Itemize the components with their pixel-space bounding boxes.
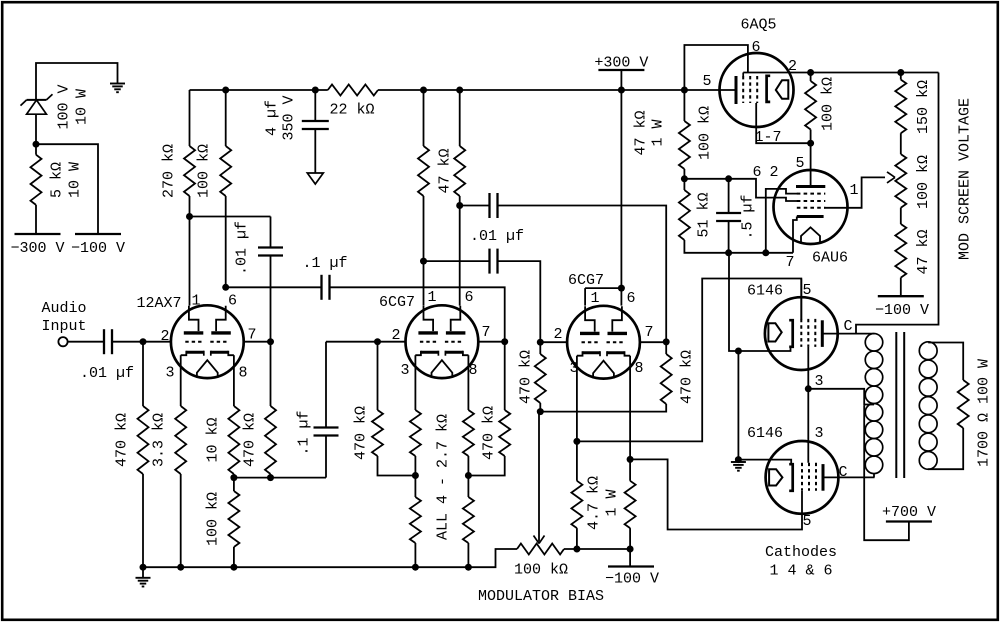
resistor 10k — [204, 355, 239, 477]
wire cathode lower 6146 — [738, 460, 791, 465]
svg-text:2: 2 — [769, 164, 778, 181]
svg-text:1: 1 — [427, 289, 436, 306]
wire drive lower 6146 — [630, 459, 802, 529]
svg-text:6146: 6146 — [747, 425, 783, 442]
svg-text:MOD SCREEN VOLTAGE: MOD SCREEN VOLTAGE — [956, 98, 973, 260]
wire grid7 6CG7b — [640, 341, 666, 343]
terminal -100V bias — [605, 549, 659, 588]
wire plate jumper 6CG7b — [585, 287, 621, 289]
tube 6146 lower — [747, 425, 848, 530]
svg-text:7: 7 — [785, 254, 794, 271]
svg-text:7: 7 — [644, 324, 653, 341]
wire node to -100V — [36, 144, 98, 234]
wire cath3 6CG7b — [576, 356, 578, 442]
node drive upper — [573, 438, 580, 445]
svg-text:7: 7 — [247, 327, 256, 344]
wire cathode upper 6146 — [729, 253, 791, 351]
ground G1 — [110, 84, 125, 93]
tube 6AU6 — [752, 143, 858, 271]
resistor 5k 10W — [31, 155, 84, 234]
capacitor .5uf — [716, 179, 756, 253]
resistor 2.7k cath A lower — [410, 414, 451, 567]
resistor 47k pair A — [418, 90, 429, 261]
node rail 4uf — [312, 87, 319, 94]
node rail 47kB — [456, 87, 463, 94]
wire cathode lead 6AU6 — [793, 217, 797, 253]
tube 6AQ5 — [702, 17, 797, 147]
wire pin3 to tap — [808, 389, 864, 406]
svg-text:5 kΩ: 5 kΩ — [48, 162, 65, 198]
svg-text:2: 2 — [160, 328, 169, 345]
node gnd3 — [230, 564, 237, 571]
node plateA 6CG7a — [420, 258, 427, 265]
node gnd2 — [177, 564, 184, 571]
node pin3 junction — [805, 385, 812, 392]
svg-text:1: 1 — [191, 293, 200, 310]
node grid2 12AX7 — [267, 338, 274, 345]
capacitor .01uf A — [233, 217, 283, 342]
resistor 470k gridA 6CG7a — [352, 342, 415, 476]
terminal -300V — [10, 234, 64, 257]
wire screen return — [856, 73, 939, 334]
wire plateA coupling — [424, 260, 490, 262]
svg-text:12AX7: 12AX7 — [136, 295, 181, 312]
wire pin1 6CG7a — [423, 261, 425, 306]
svg-text:47 kΩ: 47 kΩ — [632, 110, 649, 155]
svg-text:1: 1 — [849, 182, 858, 199]
wire pin1 12AX7 — [189, 217, 191, 306]
node zener-resistor — [33, 141, 40, 148]
wire coil bottom tick — [873, 474, 875, 478]
resistor 1700 ohm — [958, 359, 993, 467]
node cath3 6CG7b — [573, 546, 580, 553]
svg-text:8: 8 — [634, 360, 643, 377]
wire pin7 12AX7 — [244, 341, 271, 343]
resistor 3.3k — [150, 355, 186, 567]
svg-text:6: 6 — [464, 289, 473, 306]
resistor 100k cathode — [204, 478, 239, 568]
arrow bias wiper — [534, 536, 545, 544]
terminal +700V — [882, 504, 936, 522]
wire plateB coupling — [460, 205, 490, 207]
svg-text:470 kΩ: 470 kΩ — [113, 413, 130, 467]
wire capC to grid2 6CG7b — [498, 261, 541, 342]
svg-text:470 kΩ: 470 kΩ — [480, 406, 497, 460]
node screen 6AQ5 — [807, 69, 814, 76]
resistor 470k grid2 — [241, 342, 276, 478]
pot 100k bias — [514, 544, 568, 579]
svg-text:1: 1 — [590, 290, 599, 307]
svg-text:6AU6: 6AU6 — [812, 250, 848, 267]
node grid2r 6CG7b — [537, 339, 544, 346]
node input grid — [140, 338, 147, 345]
resistor 47k 1W — [632, 90, 713, 179]
svg-text:Audio: Audio — [41, 300, 86, 317]
transformer core — [896, 332, 904, 478]
svg-text:5: 5 — [802, 282, 811, 299]
node screen node — [681, 175, 688, 182]
svg-text:1 W: 1 W — [649, 119, 666, 146]
svg-text:4.7 kΩ: 4.7 kΩ — [585, 476, 602, 530]
svg-text:2: 2 — [553, 326, 562, 343]
ground G3 — [731, 462, 746, 471]
resistor 47k pair B — [436, 90, 465, 206]
svg-text:470 kΩ: 470 kΩ — [352, 406, 369, 460]
resistor 470k gridB 6CG7a — [468, 342, 510, 476]
svg-text:+300 V: +300 V — [594, 55, 648, 72]
svg-text:3: 3 — [814, 425, 823, 442]
wire grid2 stub 6AU6 — [766, 189, 798, 253]
capacitor .01uf B — [470, 193, 524, 245]
svg-text:6AQ5: 6AQ5 — [740, 17, 776, 34]
audio input label — [41, 300, 86, 335]
tube 12AX7 — [136, 293, 256, 382]
ground chassis 4uf — [307, 173, 323, 184]
node rail +300 — [618, 87, 625, 94]
svg-text:6: 6 — [228, 293, 237, 310]
resistor 4.7k 1W B — [625, 459, 636, 549]
wire pin3 6146 — [807, 347, 809, 463]
svg-text:2: 2 — [391, 327, 400, 344]
svg-text:8: 8 — [238, 365, 247, 382]
svg-text:470 kΩ: 470 kΩ — [241, 413, 258, 467]
capacitor .1uf coupling — [302, 255, 347, 300]
svg-text:5: 5 — [702, 73, 711, 90]
wire plate upper 6146 — [822, 333, 874, 335]
svg-text:470 kΩ: 470 kΩ — [678, 350, 695, 404]
wire cathode ground — [737, 351, 739, 462]
svg-text:3.3 kΩ: 3.3 kΩ — [150, 413, 167, 467]
svg-text:10 W: 10 W — [66, 162, 83, 198]
node plates 6CG7b — [618, 285, 625, 292]
arrow screen wiper — [887, 172, 895, 183]
svg-text:Input: Input — [41, 318, 86, 335]
svg-text:10 W: 10 W — [73, 89, 90, 125]
wire cath8 6CG7b — [629, 356, 631, 460]
svg-text:5: 5 — [802, 513, 811, 530]
node grid7 6CG7a — [501, 338, 508, 345]
wire screen to grid stub — [684, 179, 797, 201]
tube 6CG7 second — [553, 272, 653, 379]
svg-text:6: 6 — [752, 164, 761, 181]
node gnd4 — [412, 564, 419, 571]
node k2 — [267, 474, 274, 481]
wire bias rail — [564, 548, 630, 550]
resistor 2.7k cath B lower — [463, 406, 497, 567]
wire +300 feed 6CG7b — [620, 90, 622, 288]
transformer primary — [865, 334, 883, 474]
wire secondary bottom — [928, 428, 963, 469]
svg-text:47 kΩ: 47 kΩ — [436, 148, 453, 193]
wire input to cap — [68, 341, 104, 343]
svg-text:4 µf: 4 µf — [263, 100, 280, 136]
resistor 22k — [328, 85, 378, 119]
svg-text:.01 µf: .01 µf — [233, 221, 250, 275]
resistor 150k — [895, 73, 932, 155]
svg-text:.01 µf: .01 µf — [80, 365, 134, 382]
svg-text:Cathodes: Cathodes — [765, 544, 837, 561]
svg-text:.1 µf: .1 µf — [302, 255, 347, 272]
tube 6CG7 first — [379, 289, 491, 379]
svg-text:6: 6 — [626, 290, 635, 307]
svg-text:47 kΩ: 47 kΩ — [915, 229, 932, 274]
svg-text:8: 8 — [468, 362, 477, 379]
wire pin7 6CG7a — [478, 341, 505, 343]
node cap5 top — [725, 175, 732, 182]
node drive lower — [627, 456, 634, 463]
node plate 6AU6 — [807, 140, 814, 147]
svg-text:350 V: 350 V — [280, 95, 297, 140]
node grid7r 6CG7b — [663, 338, 670, 345]
wire zener top to ground — [36, 63, 118, 100]
resistor 470k input — [113, 342, 148, 568]
svg-text:6146: 6146 — [747, 283, 783, 300]
node rail 100k — [222, 87, 229, 94]
node k1 — [230, 474, 237, 481]
svg-text:−100 V: −100 V — [605, 571, 659, 588]
svg-text:1 W: 1 W — [603, 489, 620, 516]
wire pin5 upper 6146 — [800, 279, 802, 319]
svg-text:10 kΩ: 10 kΩ — [204, 417, 221, 462]
label modulator bias — [478, 588, 604, 605]
svg-text:100 kΩ: 100 kΩ — [696, 106, 713, 160]
resistor 2.7k cath A upper — [410, 355, 421, 475]
capacitor 4uf 350V — [263, 90, 329, 173]
wire capB to grid 6CG7 — [326, 341, 406, 343]
svg-text:3: 3 — [400, 362, 409, 379]
svg-text:100 kΩ: 100 kΩ — [819, 77, 836, 131]
ground bus — [143, 549, 517, 567]
wire bias arm — [538, 412, 540, 542]
wire tap to +700 — [864, 405, 909, 540]
terminal -100V chain — [875, 296, 929, 319]
svg-text:150 kΩ: 150 kΩ — [915, 80, 932, 134]
svg-text:−100 V: −100 V — [71, 240, 125, 257]
svg-text:+700 V: +700 V — [882, 504, 936, 521]
node cathB 6CG7a — [465, 472, 472, 479]
resistor 2.7k cath B upper — [463, 355, 474, 475]
capacitor .01uf C — [490, 249, 498, 274]
input terminal — [58, 337, 67, 346]
node gnd5 — [465, 564, 472, 571]
rail +300 segment A — [190, 89, 328, 91]
capacitor .01uf input — [80, 329, 134, 382]
wire plate lower 6146 — [823, 476, 875, 478]
resistor 270k — [160, 90, 195, 217]
svg-text:7: 7 — [481, 324, 490, 341]
capacitor .1uf B — [295, 342, 338, 478]
resistor 4.7k 1W A — [571, 441, 620, 549]
resistor 47k chain — [895, 224, 932, 296]
node plate2 — [222, 284, 229, 291]
svg-text:100 kΩ: 100 kΩ — [195, 144, 212, 198]
svg-text:1700 Ω 100 W: 1700 Ω 100 W — [975, 359, 992, 467]
svg-text:−100 V: −100 V — [875, 302, 929, 319]
wire pin6 loop 6AQ5 — [684, 45, 748, 90]
svg-text:3: 3 — [165, 365, 174, 382]
wire cap to 6CG7 grid — [330, 287, 505, 341]
wire sec top tick — [927, 341, 929, 344]
svg-text:.01 µf: .01 µf — [470, 228, 524, 245]
wire center tap — [864, 404, 874, 406]
node cathode lower — [735, 456, 742, 463]
wire pin6 6CG7b — [620, 288, 622, 306]
node cath8 6CG7b — [627, 546, 634, 553]
resistor 470k grid2 6CG7b — [517, 342, 546, 411]
wire cathode bus 12AX7 — [234, 477, 326, 479]
svg-text:22 kΩ: 22 kΩ — [329, 102, 374, 119]
node plateB 6CG7a — [456, 202, 463, 209]
node cathA 6CG7a — [412, 472, 419, 479]
tube 6146 upper — [747, 282, 853, 390]
svg-text:100 kΩ: 100 kΩ — [204, 492, 221, 546]
svg-text:51 kΩ: 51 kΩ — [695, 192, 712, 237]
terminal -100V left — [71, 234, 125, 257]
svg-text:6CG7: 6CG7 — [379, 294, 415, 311]
svg-text:C: C — [838, 464, 847, 481]
wire plate top 6AQ5 — [743, 72, 938, 74]
node rail 47kA — [420, 87, 427, 94]
resistor 470k grid7 6CG7b — [540, 342, 695, 411]
node grid 6CG7a — [374, 338, 381, 345]
label cathodes — [765, 544, 837, 580]
svg-text:100 kΩ: 100 kΩ — [514, 562, 568, 579]
resistor 100k 6AQ5 — [805, 73, 836, 144]
node bias junction — [537, 408, 544, 415]
svg-text:C: C — [843, 318, 852, 335]
terminal +300V — [594, 55, 648, 91]
resistor 51k — [679, 179, 793, 253]
svg-text:.1 µf: .1 µf — [295, 410, 312, 455]
wire secondary top — [928, 343, 963, 381]
svg-text:−300 V: −300 V — [10, 240, 64, 257]
wire drive upper 6146 — [577, 279, 801, 442]
pot 100k screen — [895, 154, 932, 224]
wire grid2 6CG7b — [540, 341, 567, 343]
wire plate2 to cap — [226, 286, 322, 288]
svg-text:100 V: 100 V — [55, 84, 72, 129]
svg-text:470 kΩ: 470 kΩ — [517, 350, 534, 404]
wire pin1 6AU6 to pot — [824, 177, 885, 207]
svg-text:MODULATOR BIAS: MODULATOR BIAS — [478, 588, 604, 605]
node gnd1 — [140, 564, 147, 571]
svg-text:100 kΩ: 100 kΩ — [915, 155, 932, 209]
svg-text:6CG7: 6CG7 — [568, 272, 604, 289]
wire pin6 6CG7a — [459, 206, 461, 306]
svg-text:.5 µf: .5 µf — [739, 194, 756, 239]
svg-text:ALL 4 - 2.7 kΩ: ALL 4 - 2.7 kΩ — [434, 414, 451, 540]
svg-text:1 4 & 6: 1 4 & 6 — [769, 563, 832, 580]
label mod screen voltage — [956, 98, 973, 260]
svg-text:270 kΩ: 270 kΩ — [160, 144, 177, 198]
resistor 100k plate1 — [195, 90, 231, 287]
svg-text:6: 6 — [751, 39, 760, 56]
wire plate1 to capA — [190, 216, 271, 218]
transformer secondary — [919, 342, 937, 469]
svg-text:5: 5 — [795, 155, 804, 172]
node plate1 — [186, 213, 193, 220]
node cap5 bottom — [725, 249, 732, 256]
wire capB to grid7 6CG7b — [498, 206, 667, 342]
svg-text:3: 3 — [814, 373, 823, 390]
wire cap to grid — [113, 341, 173, 343]
node cathode bus — [735, 348, 742, 355]
node grid2 stub — [762, 249, 769, 256]
wire zener to node — [35, 114, 37, 155]
node rail 47k1W — [681, 87, 688, 94]
rail +300 segment B — [378, 89, 736, 91]
ground G2 — [136, 567, 151, 586]
zener diode VR 100V 10W — [21, 84, 91, 129]
wire pin1 6CG7b — [584, 288, 586, 306]
wire pins17 6AQ5 — [756, 103, 810, 143]
node chain top — [897, 69, 904, 76]
